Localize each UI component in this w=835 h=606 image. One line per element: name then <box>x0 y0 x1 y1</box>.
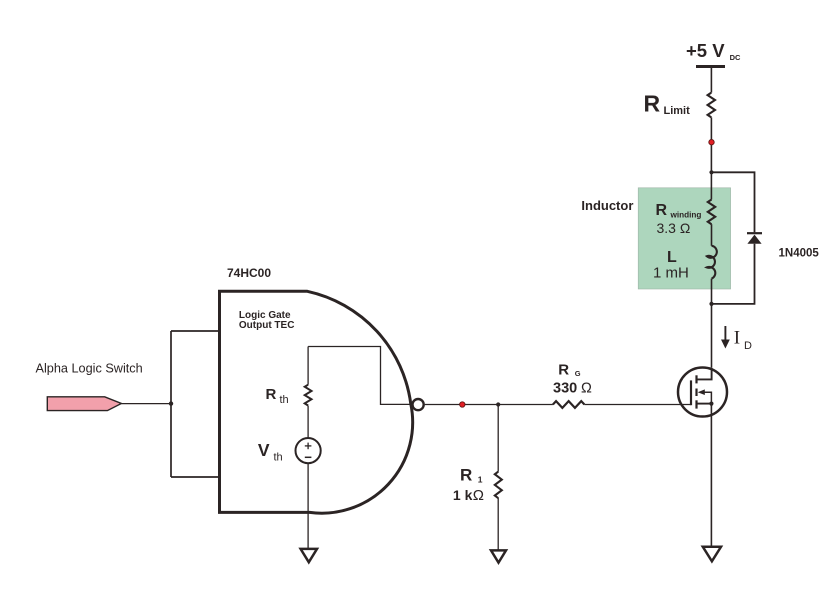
svg-text:+5 V: +5 V <box>686 40 725 61</box>
svg-text:Inductor: Inductor <box>581 198 633 213</box>
svg-text:1: 1 <box>478 475 483 485</box>
V_th plus sign <box>305 445 312 447</box>
MOSFET source junction dot <box>709 402 713 406</box>
svg-text:DC: DC <box>730 53 741 62</box>
svg-text:Alpha Logic Switch: Alpha Logic Switch <box>36 362 143 376</box>
svg-text:th: th <box>274 452 283 464</box>
svg-text:I: I <box>734 328 740 349</box>
ground (below MOSFET) <box>703 547 721 562</box>
svg-text:winding: winding <box>670 210 702 219</box>
junction dot at diode top branch <box>709 170 713 174</box>
resistor R_1 <box>495 472 502 499</box>
connector Alpha Logic Switch (pink) <box>47 397 121 411</box>
wire: +5V bar to R_Limit <box>710 67 712 93</box>
input bracket wires <box>170 331 172 477</box>
inductor L 1 mH <box>707 246 717 279</box>
svg-text:1 mH: 1 mH <box>653 265 689 282</box>
wire: MOSFET source to ground <box>710 404 712 547</box>
node (red) on output <box>460 402 465 407</box>
ground (below gate) <box>301 549 317 562</box>
wire: R_G to MOSFET gate <box>584 404 691 406</box>
label R_1 1 kOhm <box>453 466 484 505</box>
label R_winding <box>656 202 702 236</box>
wire: R_th branch upper <box>307 347 309 385</box>
source V_th (circle) <box>296 438 321 463</box>
svg-text:Ω: Ω <box>581 381 592 397</box>
svg-text:R: R <box>460 466 472 485</box>
wire: junction to diode branch (top) <box>712 172 755 232</box>
svg-text:th: th <box>280 394 289 406</box>
power rail bar +5V <box>696 65 725 68</box>
wire: bracket top input <box>171 330 218 332</box>
resistor R_Limit <box>708 93 715 118</box>
svg-text:R: R <box>656 202 668 219</box>
MOSFET gate bar <box>690 380 692 405</box>
svg-text:Logic Gate: Logic Gate <box>239 310 291 321</box>
label R_Limit <box>644 91 691 118</box>
label L 1 mH <box>653 249 689 282</box>
label R_th <box>266 386 289 406</box>
svg-text:74HC00: 74HC00 <box>227 266 271 280</box>
MOSFET drain lead <box>697 368 712 379</box>
svg-text:R: R <box>644 91 661 117</box>
wire: switch to bracket <box>121 403 171 405</box>
svg-text:Ω: Ω <box>473 487 484 504</box>
svg-text:Limit: Limit <box>664 105 691 117</box>
wire: R_1 to ground <box>497 498 499 550</box>
junction dot on bracket <box>169 401 173 405</box>
transistor Q1 (MOSFET body circle) <box>678 368 727 417</box>
wire: R_th top L-wire to output <box>308 347 412 405</box>
wire: junction to diode branch (bottom) <box>712 244 755 304</box>
wire: V_th to ground <box>307 463 309 549</box>
svg-text:1N4005: 1N4005 <box>779 248 820 260</box>
wire: L to junction <box>711 279 713 368</box>
junction dot at R_1 branch <box>496 402 500 406</box>
resistor R_th <box>305 385 312 406</box>
node (red) below R_Limit <box>709 140 714 145</box>
wire: R_th to V_th <box>307 406 309 439</box>
NAND gate U1 74HC00 outline <box>220 291 413 513</box>
diode D1 1N4005 (cathode bar) <box>747 232 762 234</box>
svg-text:D: D <box>744 340 752 352</box>
svg-text:3.3 Ω: 3.3 Ω <box>657 220 691 236</box>
svg-text:R: R <box>266 386 277 403</box>
MOSFET source lead <box>697 403 712 405</box>
gate output bubble <box>413 399 424 410</box>
wire: R_Limit to junction <box>710 117 712 199</box>
svg-text:L: L <box>667 249 677 266</box>
label +5 V DC <box>686 40 741 62</box>
wire: output bubble to MOSFET gate <box>425 404 553 406</box>
MOSFET body lead with arrow <box>704 392 712 403</box>
ground (below R_1) <box>491 550 506 562</box>
svg-text:1 k: 1 k <box>453 487 473 503</box>
wire: R_winding to L <box>711 224 713 246</box>
label I_D <box>734 328 752 352</box>
MOSFET channel bar (3 segments) <box>695 375 697 383</box>
svg-text:Output TEC: Output TEC <box>239 320 295 331</box>
label V_th <box>258 440 283 464</box>
label Logic Gate Output TEC <box>239 310 295 331</box>
svg-text:R: R <box>558 361 569 378</box>
current arrow I_D <box>724 326 726 341</box>
inductor shading box <box>638 188 730 289</box>
V_th minus sign <box>305 456 312 458</box>
wire: R_1 branch down <box>497 405 499 472</box>
diode D1 1N4005 (anode triangle) <box>747 235 761 244</box>
svg-text:330: 330 <box>553 381 577 397</box>
label R_G 330 ohm <box>553 361 592 396</box>
junction dot at diode bottom branch <box>709 302 713 306</box>
resistor R_winding <box>708 200 715 225</box>
svg-text:G: G <box>575 369 581 378</box>
wire: bracket bottom input <box>171 476 218 478</box>
resistor R_G <box>553 401 585 408</box>
svg-text:V: V <box>258 440 270 460</box>
